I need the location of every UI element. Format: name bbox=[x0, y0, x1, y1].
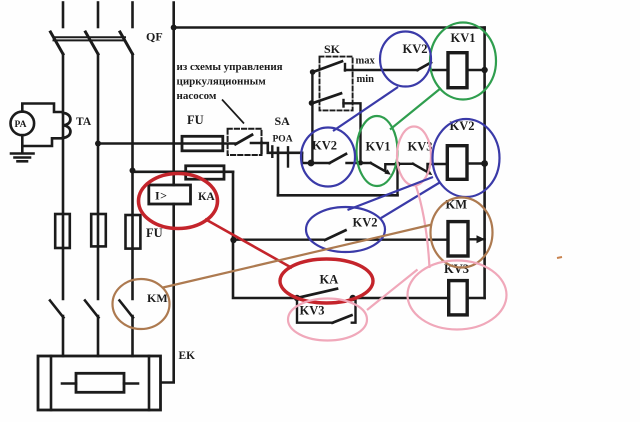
relay KA box (I>) bbox=[149, 185, 191, 204]
thermostat SK dashed box bbox=[320, 57, 353, 111]
wire row4 to coil KV3 bbox=[353, 297, 449, 299]
annotation red ellipse KA relay bbox=[139, 174, 218, 229]
current transformer TA windings bbox=[63, 113, 70, 138]
svg-text:насосом: насосом bbox=[177, 90, 217, 102]
annotation blue line KV2 coil to row3 b bbox=[381, 182, 441, 218]
wire coil KV3 to rail bbox=[467, 297, 484, 299]
annotation green line KV1 row2 to coil bbox=[390, 88, 441, 130]
svg-text:max: max bbox=[356, 56, 376, 67]
annotation blue line KV2 coil to row3 a bbox=[348, 177, 434, 210]
annotation green ellipse KV1 row2 bbox=[357, 116, 398, 186]
wire subrow right bbox=[352, 298, 356, 323]
connector POA bar 1 bbox=[260, 142, 262, 153]
wire KM to EK 3 bbox=[131, 316, 134, 356]
annotation brown ellipse KM coil bbox=[431, 198, 493, 268]
node KA pivot bbox=[294, 295, 300, 301]
fuse FU2 bbox=[186, 166, 224, 179]
coil KV2 bbox=[447, 146, 467, 180]
switch SA blade bbox=[236, 135, 253, 144]
contact KV3 fixed stub bbox=[428, 164, 448, 171]
contact KA blade bbox=[297, 289, 337, 298]
svg-text:QF: QF bbox=[146, 30, 163, 44]
node rail row2 bbox=[481, 160, 488, 167]
svg-text:KV1: KV1 bbox=[366, 140, 391, 154]
svg-text:SK: SK bbox=[324, 42, 341, 56]
annotation red ellipse KA row4 bbox=[280, 259, 373, 303]
supply line N (x=174) bbox=[172, 3, 175, 186]
fuse FU power 3 bbox=[126, 215, 141, 249]
annotation pink line KV3 row2 to coil bbox=[416, 186, 430, 268]
annotation pink ellipse KV3 row2 bbox=[397, 127, 431, 186]
wire bypass rise bbox=[396, 164, 398, 195]
svg-text:KV3: KV3 bbox=[300, 304, 325, 318]
contact SK max fixed stub bbox=[344, 64, 346, 71]
supply stub L3 bbox=[131, 3, 134, 28]
coil KV3 bbox=[449, 281, 468, 315]
annotation brown ellipse KM contact bbox=[113, 279, 170, 329]
contactor KM contact 1 bbox=[50, 301, 64, 318]
node rail row1 bbox=[481, 67, 487, 73]
wire row3 left bbox=[233, 238, 325, 240]
wire row4 bbox=[296, 297, 298, 299]
wire row2 mid bbox=[347, 162, 371, 164]
node supply top bbox=[171, 25, 177, 31]
phase wire 2 bbox=[97, 54, 100, 299]
svg-text:PA: PA bbox=[15, 120, 27, 130]
fuse FU1 bbox=[182, 136, 223, 151]
wire coil KV1 to rail bbox=[467, 69, 485, 71]
node KA fixed bbox=[350, 295, 356, 301]
phase wire 3 bbox=[131, 54, 134, 299]
svg-text:KM: KM bbox=[147, 291, 168, 305]
node min drop bbox=[358, 160, 363, 165]
svg-text:min: min bbox=[357, 74, 375, 85]
phase wire 1 bbox=[62, 54, 65, 299]
ground bbox=[11, 154, 34, 162]
wire SA output bbox=[251, 143, 302, 153]
contact KV2 row2 blade bbox=[330, 154, 347, 163]
svg-text:FU: FU bbox=[146, 226, 163, 240]
contact KV2 row1 blade bbox=[418, 63, 432, 71]
contact KV3 row2 blade bbox=[413, 164, 428, 173]
breaker QF linkage bar bbox=[54, 37, 126, 40]
svg-text:SA: SA bbox=[275, 114, 291, 128]
contact SK min fixed stub bbox=[342, 100, 344, 107]
annotation pink ellipse KV3 bottom bbox=[288, 299, 367, 341]
note arrow line bbox=[222, 100, 244, 124]
node row2 right bbox=[394, 161, 400, 167]
switch SA dashed box bbox=[228, 129, 262, 155]
svg-text:TA: TA bbox=[76, 116, 92, 128]
wire row1 to coil KV1 bbox=[431, 69, 448, 71]
svg-text:KV1: KV1 bbox=[451, 31, 476, 45]
contact KV1 fixed stub bbox=[385, 164, 397, 171]
svg-text:KV2: KV2 bbox=[403, 42, 428, 56]
contact KV3 arrowhead bbox=[426, 170, 432, 176]
annotation green ellipse KV1 coil bbox=[430, 23, 496, 100]
svg-text:KV2: KV2 bbox=[312, 139, 337, 153]
svg-text:EK: EK bbox=[179, 350, 196, 362]
wire FU2 to left rail bbox=[233, 172, 297, 298]
annotation red line KA relay to KA row4 bbox=[205, 219, 292, 268]
wire row2 to KV3 contact bbox=[398, 163, 414, 165]
svg-text:КА: КА bbox=[198, 191, 215, 203]
fuse FU power 2 bbox=[91, 214, 106, 246]
contactor KM contact 3 bbox=[120, 301, 134, 318]
wire coil KM to rail bbox=[468, 238, 485, 240]
supply stub L2 bbox=[97, 3, 100, 28]
wire PA top to TA bbox=[22, 104, 62, 113]
wire coil KV2 to rail bbox=[467, 162, 485, 164]
svg-text:I>: I> bbox=[155, 189, 168, 203]
connector POA bar 3 bbox=[287, 147, 289, 166]
annotation pink ellipse KV3 coil bbox=[408, 261, 507, 330]
wire top bus bbox=[174, 26, 485, 29]
contact SK max blade bbox=[313, 61, 342, 72]
svg-text:KV2: KV2 bbox=[353, 216, 378, 230]
wire POA corner down to row2 bbox=[302, 153, 311, 163]
contactor KM contact 2 bbox=[85, 301, 99, 318]
node row2 left bbox=[308, 160, 315, 167]
connector POA bar 2 bbox=[271, 146, 273, 156]
coil KV1 bbox=[448, 53, 467, 88]
wire SK min to row2 bbox=[344, 103, 361, 163]
node FU1 tap bbox=[95, 141, 101, 147]
wire bypass (lower feed) bbox=[278, 194, 398, 197]
wire row3 to coil KM bbox=[346, 238, 448, 240]
annotation blue ellipse KV2 row1 bbox=[380, 32, 431, 87]
wire KM to EK 2 bbox=[97, 316, 100, 356]
heater EK partition right bbox=[148, 356, 151, 410]
SK left rail bbox=[311, 72, 313, 163]
contact KV1 arrowhead bbox=[384, 169, 390, 175]
coil KM bbox=[448, 222, 468, 256]
heater EK box bbox=[38, 356, 161, 410]
svg-text:FU: FU bbox=[187, 113, 204, 127]
node rail row3 arrow bbox=[477, 235, 486, 243]
wire row1 bbox=[345, 69, 418, 71]
breaker QF pole 2 blade bbox=[86, 32, 99, 54]
contact KV2 row3 blade bbox=[325, 230, 346, 240]
svg-text:циркуляционным: циркуляционным bbox=[177, 75, 267, 87]
ammeter PA circle bbox=[10, 112, 34, 136]
annotation blue line KV2 row1 to row2 bbox=[333, 87, 398, 131]
heater EK element bbox=[76, 373, 124, 392]
wire drop to bypass bbox=[277, 148, 280, 195]
wire PA to ground bbox=[21, 135, 24, 152]
wire PA bottom to TA bbox=[22, 138, 63, 146]
annotation pink line KV3 bottom to coil bbox=[367, 270, 418, 311]
wire to fuse FU1 bbox=[98, 142, 236, 145]
wire row2 left bbox=[311, 162, 330, 164]
stray pink mark bbox=[557, 257, 562, 258]
breaker QF pole 3 blade bbox=[120, 32, 133, 54]
contact KV3 bottom blade bbox=[333, 315, 352, 323]
node row3 left bbox=[230, 237, 236, 243]
wire KA to EK bbox=[161, 204, 174, 383]
annotation blue ellipse KV2 row2 bbox=[301, 128, 355, 187]
breaker QF pole 1 blade bbox=[51, 32, 64, 54]
contact SK min blade bbox=[313, 93, 341, 103]
node SK min pivot bbox=[309, 100, 315, 106]
annotation blue ellipse KV2 row3 bbox=[306, 207, 385, 252]
wire to fuse FU2 bbox=[133, 171, 234, 174]
annotation blue ellipse KV2 coil bbox=[433, 119, 500, 197]
svg-text:KA: KA bbox=[320, 273, 339, 287]
heater EK element lead left bbox=[62, 382, 76, 385]
annotation brown line KM contact to coil bbox=[163, 225, 432, 288]
svg-text:из схемы управления: из схемы управления bbox=[177, 61, 283, 73]
fuse FU power 1 bbox=[55, 214, 70, 248]
contact KV1 row2 blade bbox=[371, 163, 387, 172]
node SK max pivot bbox=[310, 69, 316, 75]
supply stub L1 bbox=[62, 3, 65, 28]
svg-text:POA: POA bbox=[273, 135, 293, 145]
heater EK partition left bbox=[50, 356, 53, 410]
heater EK element lead right bbox=[124, 382, 138, 385]
wire KM to EK 1 bbox=[62, 316, 65, 356]
node FU2 tap bbox=[130, 168, 136, 174]
wire right rail bbox=[483, 28, 486, 299]
wire subrow drop bbox=[297, 298, 333, 323]
